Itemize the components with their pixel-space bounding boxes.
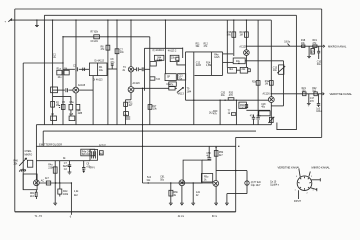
svg-text:100k: 100k <box>63 194 69 196</box>
svg-text:C50: C50 <box>206 153 211 155</box>
svg-text:C4p 10u*: C4p 10u* <box>251 185 261 187</box>
svg-text:470: 470 <box>229 95 234 97</box>
svg-text:EMITTERFOLGER: EMITTERFOLGER <box>39 144 62 147</box>
svg-text:4A113: 4A113 <box>177 93 184 96</box>
svg-text:R61: R61 <box>30 193 35 195</box>
svg-text:1,8M: 1,8M <box>206 65 211 67</box>
svg-text:VEROTNE KANAL: VEROTNE KANAL <box>330 92 353 96</box>
svg-text:MIKRO KANAL: MIKRO KANAL <box>328 44 347 48</box>
svg-text:SETRA: SETRA <box>63 165 71 168</box>
svg-text:T1...T6: T1...T6 <box>35 216 43 218</box>
svg-text:20u: 20u <box>221 95 226 97</box>
svg-text:18,9u: 18,9u <box>284 41 291 43</box>
svg-text:R46: R46 <box>14 161 19 163</box>
svg-text:AC: AC <box>41 179 45 182</box>
svg-text:R2a: R2a <box>252 81 257 83</box>
svg-text:AC126: AC126 <box>133 82 141 85</box>
svg-text:R4d: R4d <box>63 191 68 193</box>
svg-text:Di 4A113: Di 4A113 <box>93 78 103 81</box>
svg-text:220k: 220k <box>48 167 54 169</box>
svg-text:C61: C61 <box>160 177 165 179</box>
svg-text:30u: 30u <box>317 64 322 66</box>
svg-text:(2) Tl 9u6: (2) Tl 9u6 <box>251 182 262 184</box>
svg-text:12u5: 12u5 <box>214 57 220 59</box>
svg-text:1,8M: 1,8M <box>156 61 161 63</box>
svg-text:22u5: 22u5 <box>196 65 202 67</box>
svg-text:INPUT: INPUT <box>294 201 302 203</box>
svg-text:AC108: AC108 <box>78 84 86 87</box>
svg-text:5k6 1M4: 5k6 1M4 <box>82 154 92 156</box>
svg-text:10n: 10n <box>120 52 125 54</box>
svg-text:10u: 10u <box>273 70 278 72</box>
svg-text:4A113 2: 4A113 2 <box>168 50 177 53</box>
svg-text:R4u: R4u <box>48 165 53 167</box>
svg-text:AC126: AC126 <box>263 92 271 95</box>
svg-text:1M4: 1M4 <box>187 91 192 93</box>
svg-text:4k cm: 4k cm <box>178 216 184 218</box>
svg-text:100u: 100u <box>316 111 322 113</box>
svg-text:470: 470 <box>310 101 315 103</box>
svg-text:1M: 1M <box>265 83 268 85</box>
svg-text:1M: 1M <box>240 35 243 37</box>
svg-text:C(p)84 s: C(p)84 s <box>270 185 280 187</box>
svg-text:VERDTNE KANAL: VERDTNE KANAL <box>278 165 301 169</box>
svg-text:1u5: 1u5 <box>69 114 74 116</box>
svg-text:MIKRO KANAL: MIKRO KANAL <box>312 165 331 169</box>
svg-text:C9 22n: C9 22n <box>91 41 99 43</box>
svg-text:CHEN-: CHEN- <box>25 151 33 153</box>
svg-text:Di 4A113: Di 4A113 <box>95 59 105 62</box>
svg-text:1M: 1M <box>56 105 59 107</box>
svg-text:1M: 1M <box>64 69 67 71</box>
svg-text:12,6 V: 12,6 V <box>99 145 106 147</box>
svg-text:R6b: R6b <box>174 192 179 194</box>
svg-text:47u: 47u <box>250 115 255 117</box>
svg-text:SP: SP <box>167 76 171 78</box>
svg-text:70n: 70n <box>178 78 183 80</box>
svg-text:R4a C4B: R4a C4B <box>82 151 92 153</box>
svg-text:R52: R52 <box>219 152 224 154</box>
svg-text:C16: C16 <box>311 50 316 52</box>
svg-text:0,4 V: 0,4 V <box>90 167 96 169</box>
svg-text:1M8: 1M8 <box>78 113 83 115</box>
svg-text:MIKRO: MIKRO <box>25 154 33 156</box>
svg-text:Ca 10: Ca 10 <box>270 181 277 183</box>
svg-text:C4a: C4a <box>166 84 171 86</box>
svg-text:C13: C13 <box>178 76 183 78</box>
svg-text:C5a: C5a <box>69 102 74 104</box>
svg-text:(1) 2A4113: (1) 2A4113 <box>153 49 165 52</box>
svg-text:R7 82k: R7 82k <box>91 32 99 34</box>
svg-text:60 m: 60 m <box>212 216 217 218</box>
svg-text:R1a: R1a <box>57 69 62 71</box>
svg-text:R9u: R9u <box>204 177 209 179</box>
